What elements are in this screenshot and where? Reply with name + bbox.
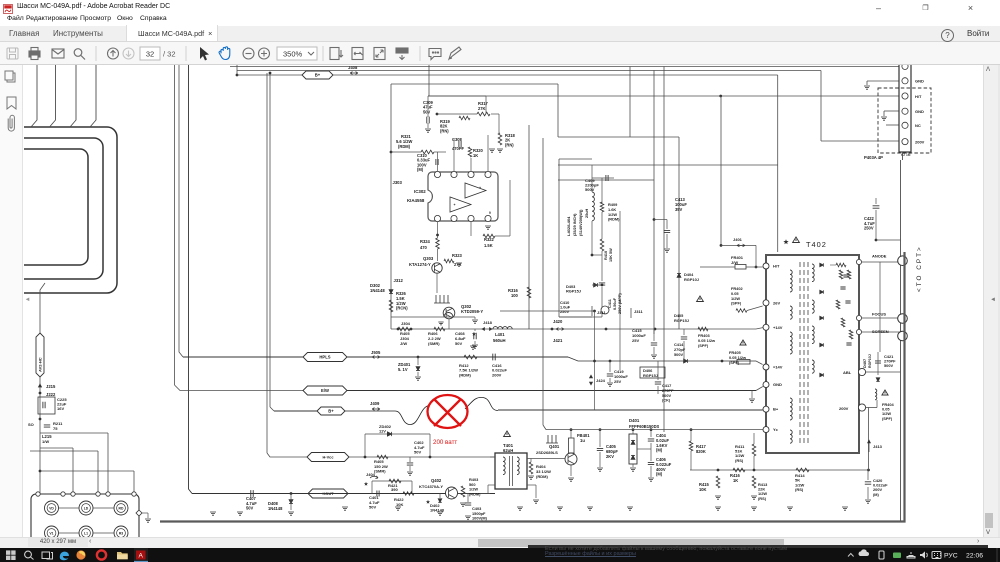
svg-text:LD: LD [84, 507, 89, 511]
svg-text:25V: 25V [632, 338, 639, 343]
svg-text:200V: 200V [492, 372, 502, 377]
svg-text:(RDM): (RDM) [608, 217, 620, 222]
svg-text:(SMR): (SMR) [374, 469, 386, 474]
svg-text:Q303: Q303 [423, 256, 434, 261]
svg-text:2SD2689LS: 2SD2689LS [536, 450, 558, 455]
svg-text:HPLS: HPLS [319, 355, 330, 360]
svg-text:(SPF): (SPF) [731, 301, 742, 306]
svg-text:50V: 50V [455, 341, 462, 346]
svg-text:(M): (M) [656, 472, 663, 477]
svg-text:L1: L1 [84, 532, 88, 536]
svg-text:9: 9 [489, 211, 491, 215]
svg-text:J215: J215 [46, 384, 56, 389]
svg-text:/ 32: / 32 [163, 50, 176, 59]
svg-text:(RS): (RS) [735, 458, 744, 463]
svg-text:350%: 350% [283, 50, 303, 59]
svg-text:(RDM): (RDM) [536, 474, 548, 479]
svg-text:50V: 50V [246, 506, 254, 511]
svg-text:25V: 25V [614, 379, 621, 384]
svg-text:H-Vcc: H-Vcc [322, 455, 334, 460]
svg-text:250V (MPP): 250V (MPP) [618, 293, 622, 314]
svg-text:250V: 250V [560, 309, 569, 314]
svg-text:KTC4370A-Y: KTC4370A-Y [419, 484, 443, 489]
svg-text:Q401: Q401 [549, 444, 560, 449]
svg-text:J413: J413 [873, 444, 883, 449]
svg-text:R410: R410 [604, 251, 608, 260]
svg-text:Yc: Yc [773, 427, 779, 432]
svg-text:1K: 1K [473, 153, 478, 158]
svg-text:RGP15J: RGP15J [566, 289, 581, 294]
svg-text:1N4148: 1N4148 [370, 288, 385, 293]
svg-text:SO: SO [28, 422, 34, 427]
svg-text:(S140V200(W)): (S140V200(W)) [579, 209, 583, 236]
svg-text:11V: 11V [379, 428, 386, 433]
svg-text:+: + [454, 203, 456, 207]
svg-text:GND: GND [915, 79, 924, 84]
svg-text:200 ватт: 200 ватт [433, 439, 457, 446]
svg-text:D407: D407 [863, 359, 867, 368]
svg-text:820K: 820K [696, 449, 706, 454]
svg-text:=14V: =14V [773, 365, 783, 370]
svg-text:R324: R324 [420, 239, 431, 244]
svg-text:ABL: ABL [843, 370, 852, 375]
svg-text:470: 470 [420, 245, 428, 250]
svg-text:SCREEN: SCREEN [872, 329, 889, 334]
svg-text:200V: 200V [915, 139, 925, 144]
svg-text:KTA1274-Y: KTA1274-Y [409, 262, 431, 267]
svg-text:GND: GND [915, 109, 924, 114]
svg-text:62uH: 62uH [503, 448, 513, 453]
svg-text:C411: C411 [608, 299, 612, 308]
svg-text:1K: 1K [733, 478, 738, 483]
svg-text:AV2-HC: AV2-HC [38, 357, 43, 372]
svg-text:J311: J311 [634, 309, 643, 314]
svg-text:J311: J311 [597, 310, 606, 315]
svg-text:560uH: 560uH [493, 338, 506, 343]
svg-text:(M): (M) [656, 448, 663, 453]
svg-text:D401: D401 [629, 418, 640, 423]
svg-text:500V: 500V [674, 352, 683, 357]
svg-text:J420: J420 [553, 319, 563, 324]
svg-text:50V: 50V [414, 450, 421, 455]
svg-text:100V(M): 100V(M) [472, 516, 488, 521]
svg-text:(SPF): (SPF) [882, 416, 893, 421]
svg-text:ANODE: ANODE [872, 254, 887, 259]
svg-text:(RCN): (RCN) [396, 306, 408, 311]
svg-text:R323: R323 [452, 253, 463, 258]
svg-text:(25/29 INCH): (25/29 INCH) [573, 213, 577, 236]
svg-text:GND: GND [773, 382, 782, 387]
svg-text:16V: 16V [57, 406, 64, 411]
svg-text:+: + [479, 186, 481, 190]
svg-text:H/T: H/T [773, 264, 780, 269]
svg-text:J303: J303 [393, 180, 403, 185]
svg-text:15K 5W: 15K 5W [609, 248, 613, 262]
svg-text:L402/L404: L402/L404 [566, 216, 571, 236]
svg-text:KTD2059-Y: KTD2059-Y [461, 309, 483, 314]
svg-text:500V: 500V [585, 187, 595, 192]
svg-text:B+: B+ [315, 73, 321, 78]
svg-text:(RDM): (RDM) [398, 144, 411, 149]
svg-text:1.5K: 1.5K [484, 243, 493, 248]
svg-text:J505: J505 [371, 350, 381, 355]
svg-text:J418: J418 [483, 320, 493, 325]
svg-text:RGP15J: RGP15J [674, 318, 689, 323]
svg-text:FOCUS: FOCUS [872, 311, 886, 316]
svg-text:J312: J312 [394, 278, 404, 283]
svg-text:1/W: 1/W [42, 439, 49, 444]
svg-text:РУС: РУС [944, 553, 958, 560]
svg-text:2KV: 2KV [606, 454, 614, 459]
svg-text:75: 75 [53, 426, 58, 431]
svg-text:(RN): (RN) [505, 142, 514, 147]
svg-text:B+: B+ [328, 409, 334, 414]
svg-text:NC: NC [915, 123, 921, 128]
svg-text:L401: L401 [495, 332, 505, 337]
svg-text:10K: 10K [396, 502, 403, 507]
svg-text:22:06: 22:06 [966, 553, 983, 560]
svg-text:32: 32 [146, 50, 154, 59]
svg-text:250V: 250V [864, 226, 874, 231]
svg-text:KIA4558: KIA4558 [407, 198, 425, 203]
svg-text:J401: J401 [733, 237, 743, 242]
svg-text:E/W: E/W [321, 388, 329, 393]
svg-text:(RS): (RS) [758, 496, 767, 501]
svg-text:FFPF60B150DS: FFPF60B150DS [629, 424, 660, 429]
svg-text:(RN): (RN) [440, 128, 449, 133]
svg-text:1N4148: 1N4148 [268, 506, 283, 511]
svg-text:<TO CPT>: <TO CPT> [916, 245, 923, 292]
svg-text:B+: B+ [773, 407, 779, 412]
svg-text:5. 1V: 5. 1V [398, 367, 408, 372]
svg-text:25uH: 25uH [585, 208, 589, 218]
svg-text:(SPF): (SPF) [698, 343, 709, 348]
svg-text:50V: 50V [423, 109, 431, 114]
svg-text:RGP10J: RGP10J [684, 277, 699, 282]
svg-text:35V: 35V [675, 207, 683, 212]
svg-text:J421: J421 [553, 338, 563, 343]
svg-text:T402: T402 [806, 240, 827, 249]
svg-text:500V: 500V [884, 363, 893, 368]
svg-text:J409: J409 [370, 401, 380, 406]
svg-text:J222: J222 [46, 392, 56, 397]
svg-text:J424: J424 [596, 378, 606, 383]
svg-text:(RS): (RS) [795, 487, 804, 492]
svg-text:100: 100 [511, 293, 519, 298]
svg-text:RD: RD [119, 507, 124, 511]
svg-text:1u: 1u [580, 438, 585, 443]
svg-text:VD: VD [49, 507, 54, 511]
svg-text:J304: J304 [401, 321, 411, 326]
svg-text:(RDM): (RDM) [459, 372, 471, 377]
svg-text:+14V: +14V [773, 325, 783, 330]
svg-text:(M): (M) [417, 167, 424, 172]
svg-text:27K: 27K [478, 106, 486, 111]
svg-text:390: 390 [391, 487, 398, 492]
svg-text:50V: 50V [369, 505, 376, 510]
svg-text:RGP10J: RGP10J [868, 354, 872, 368]
svg-text:V1: V1 [49, 532, 53, 536]
svg-text:A: A [139, 552, 144, 559]
svg-text:Q402: Q402 [431, 478, 442, 483]
svg-text:(CK): (CK) [662, 398, 671, 403]
svg-text:R3: R3 [119, 532, 123, 536]
svg-text:H/T: H/T [915, 94, 922, 99]
svg-text:200V: 200V [839, 406, 849, 411]
svg-text:IC302: IC302 [414, 189, 426, 194]
svg-text:(M): (M) [873, 492, 880, 497]
svg-text:0.56uF: 0.56uF [613, 297, 617, 310]
svg-text:10K: 10K [699, 487, 707, 492]
svg-text:RGP15J: RGP15J [643, 373, 658, 378]
svg-text:P403A 4P: P403A 4P [864, 155, 883, 160]
svg-text:J/W: J/W [400, 341, 407, 346]
svg-text:J408: J408 [348, 65, 358, 70]
svg-text:(SMR): (SMR) [428, 341, 440, 346]
svg-text:26V: 26V [773, 300, 780, 305]
svg-text:(RDM): (RDM) [469, 491, 481, 496]
